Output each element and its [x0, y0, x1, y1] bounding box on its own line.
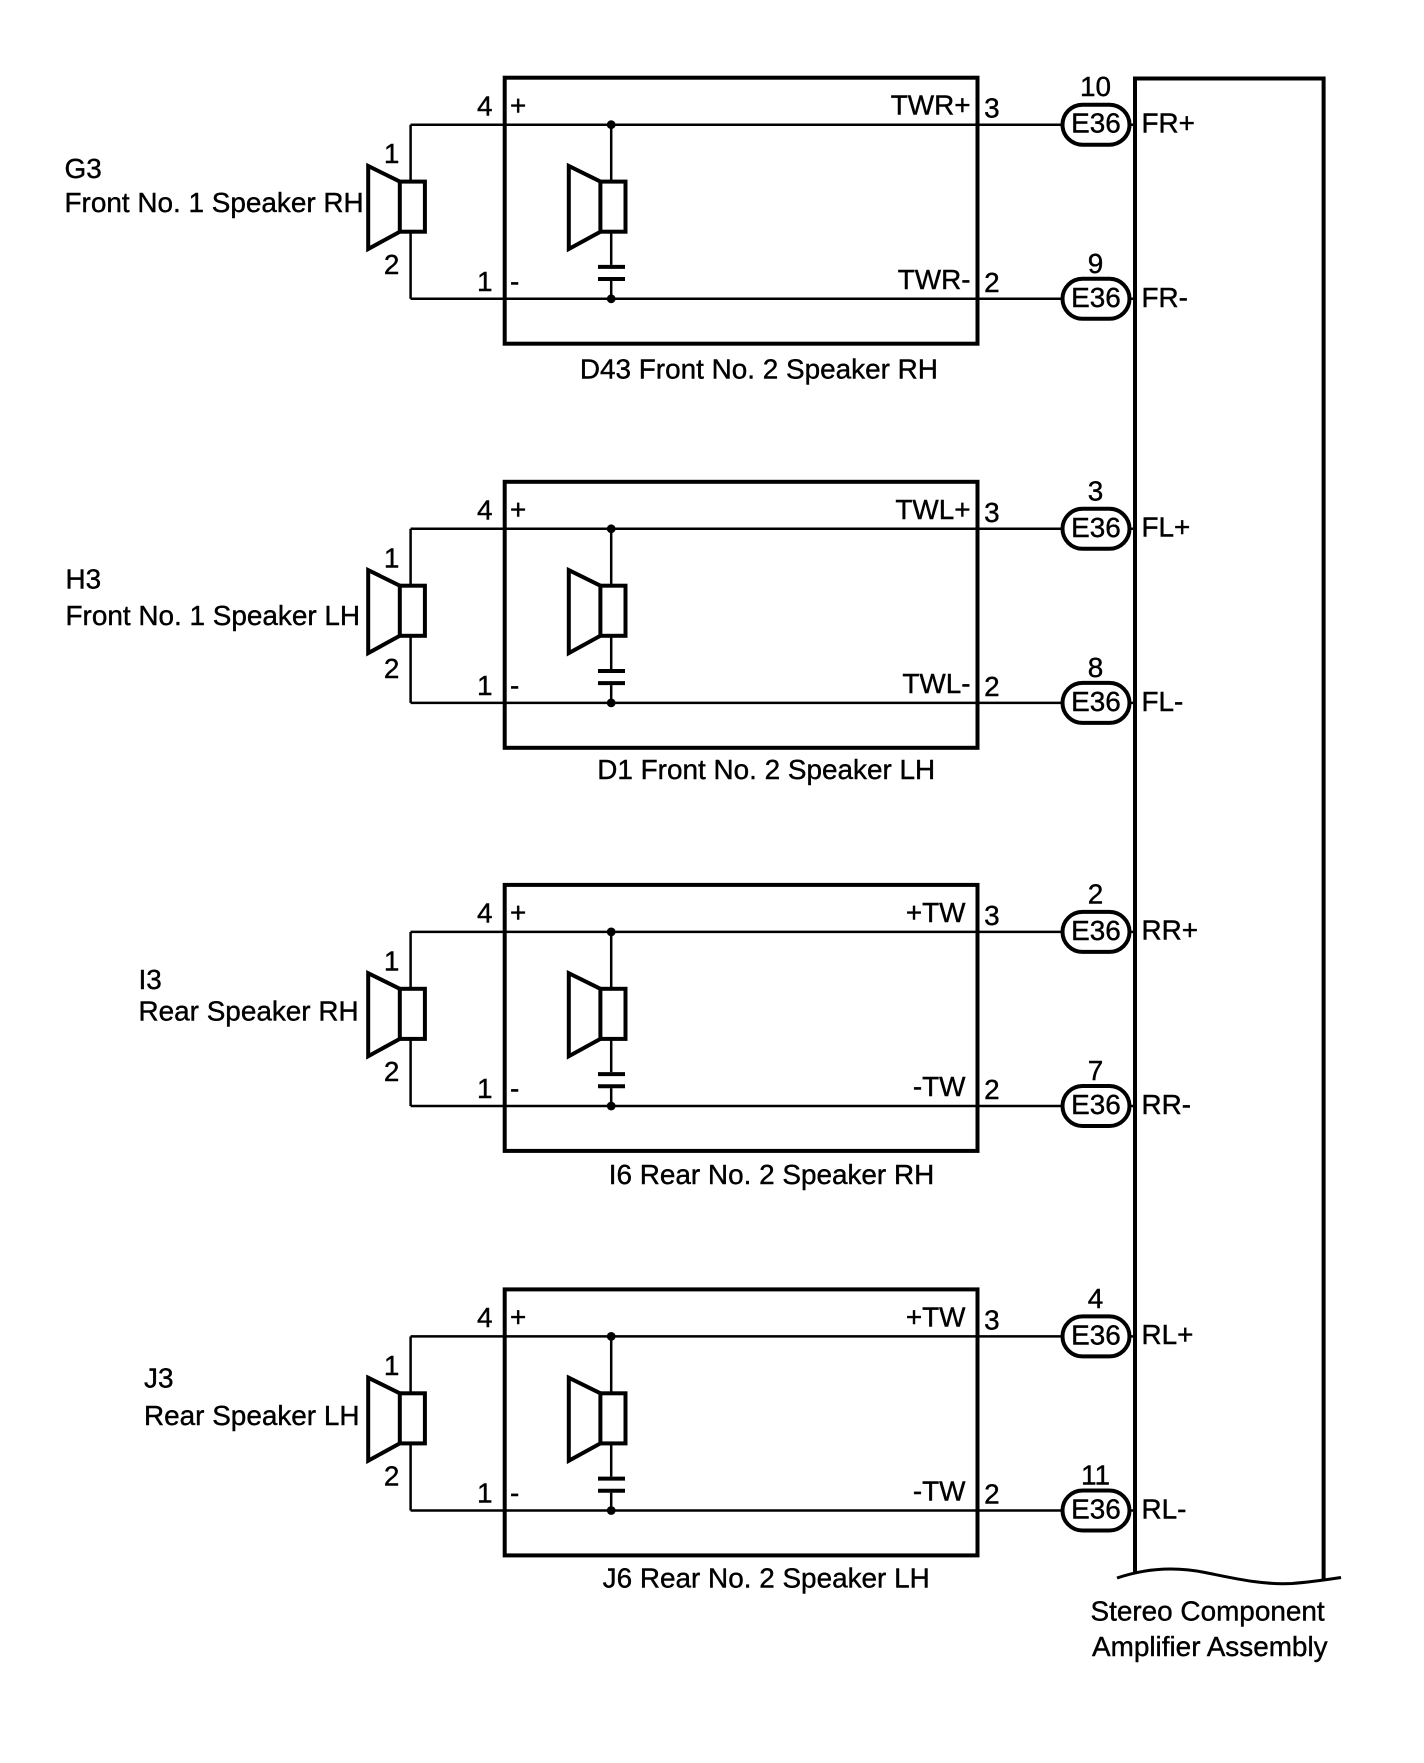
svg-text:2: 2 [984, 267, 1000, 298]
svg-text:RL+: RL+ [1142, 1319, 1194, 1350]
svg-text:TWL+: TWL+ [895, 494, 970, 525]
svg-text:-: - [510, 1073, 519, 1104]
svg-text:E36: E36 [1071, 915, 1121, 946]
svg-text:E36: E36 [1071, 512, 1121, 543]
svg-text:+TW: +TW [906, 1301, 966, 1332]
svg-text:RR-: RR- [1142, 1089, 1192, 1120]
svg-text:1: 1 [477, 266, 493, 297]
svg-text:9: 9 [1088, 248, 1104, 279]
svg-text:Rear Speaker LH: Rear Speaker LH [144, 1400, 360, 1431]
svg-text:TWR-: TWR- [898, 264, 971, 295]
svg-text:1: 1 [477, 1478, 493, 1509]
svg-text:4: 4 [1088, 1283, 1104, 1314]
svg-text:4: 4 [477, 495, 493, 526]
svg-text:8: 8 [1088, 652, 1104, 683]
svg-text:2: 2 [384, 1461, 400, 1492]
svg-text:Front No. 1 Speaker RH: Front No. 1 Speaker RH [65, 187, 364, 218]
svg-text:2: 2 [984, 1479, 1000, 1510]
svg-text:3: 3 [1088, 475, 1104, 506]
svg-text:2: 2 [1088, 878, 1104, 909]
svg-text:J3: J3 [144, 1362, 173, 1393]
svg-text:I6 Rear No. 2 Speaker RH: I6 Rear No. 2 Speaker RH [609, 1159, 935, 1190]
svg-text:1: 1 [384, 138, 400, 169]
svg-text:-TW: -TW [913, 1071, 966, 1102]
svg-text:3: 3 [984, 900, 1000, 931]
svg-text:+: + [510, 1302, 526, 1333]
svg-text:2: 2 [384, 653, 400, 684]
svg-text:E36: E36 [1071, 282, 1121, 313]
svg-text:+TW: +TW [906, 897, 966, 928]
svg-text:7: 7 [1088, 1055, 1104, 1086]
svg-text:1: 1 [384, 1350, 400, 1381]
svg-text:3: 3 [984, 1304, 1000, 1335]
svg-text:4: 4 [477, 1302, 493, 1333]
svg-text:E36: E36 [1071, 1089, 1121, 1120]
svg-text:1: 1 [477, 670, 493, 701]
svg-text:FL-: FL- [1142, 686, 1184, 717]
svg-text:D43 Front No. 2 Speaker RH: D43 Front No. 2 Speaker RH [580, 354, 938, 385]
svg-text:+: + [510, 897, 526, 928]
svg-text:2: 2 [384, 249, 400, 280]
svg-text:Rear Speaker RH: Rear Speaker RH [139, 996, 359, 1027]
svg-text:E36: E36 [1071, 1319, 1121, 1350]
svg-text:-: - [510, 266, 519, 297]
svg-text:+: + [510, 90, 526, 121]
svg-text:FR-: FR- [1142, 282, 1188, 313]
svg-text:Front No. 1 Speaker LH: Front No. 1 Speaker LH [66, 600, 361, 631]
svg-text:-TW: -TW [913, 1476, 966, 1507]
svg-text:3: 3 [984, 93, 1000, 124]
svg-text:D1 Front No. 2 Speaker LH: D1 Front No. 2 Speaker LH [597, 754, 935, 785]
svg-text:2: 2 [384, 1056, 400, 1087]
svg-text:J6 Rear No. 2 Speaker LH: J6 Rear No. 2 Speaker LH [603, 1563, 930, 1594]
svg-text:4: 4 [477, 898, 493, 929]
svg-text:G3: G3 [65, 153, 102, 184]
svg-text:FL+: FL+ [1142, 512, 1191, 543]
svg-text:TWL-: TWL- [902, 668, 970, 699]
svg-text:1: 1 [477, 1073, 493, 1104]
svg-text:3: 3 [984, 497, 1000, 528]
svg-text:E36: E36 [1071, 108, 1121, 139]
svg-text:E36: E36 [1071, 1494, 1121, 1525]
svg-text:11: 11 [1081, 1460, 1110, 1491]
svg-text:E36: E36 [1071, 686, 1121, 717]
svg-text:Amplifier Assembly: Amplifier Assembly [1092, 1631, 1328, 1662]
svg-text:-: - [510, 670, 519, 701]
svg-text:-: - [510, 1478, 519, 1509]
svg-text:1: 1 [384, 542, 400, 573]
svg-text:I3: I3 [139, 964, 162, 995]
svg-text:2: 2 [984, 671, 1000, 702]
svg-text:+: + [510, 494, 526, 525]
svg-text:10: 10 [1080, 71, 1111, 102]
svg-text:4: 4 [477, 91, 493, 122]
svg-text:1: 1 [384, 945, 400, 976]
svg-text:RR+: RR+ [1142, 915, 1199, 946]
svg-text:Stereo Component: Stereo Component [1091, 1596, 1325, 1627]
svg-text:FR+: FR+ [1142, 107, 1195, 138]
svg-text:2: 2 [984, 1074, 1000, 1105]
svg-text:RL-: RL- [1142, 1494, 1187, 1525]
svg-text:TWR+: TWR+ [891, 90, 971, 121]
svg-text:H3: H3 [66, 563, 102, 594]
